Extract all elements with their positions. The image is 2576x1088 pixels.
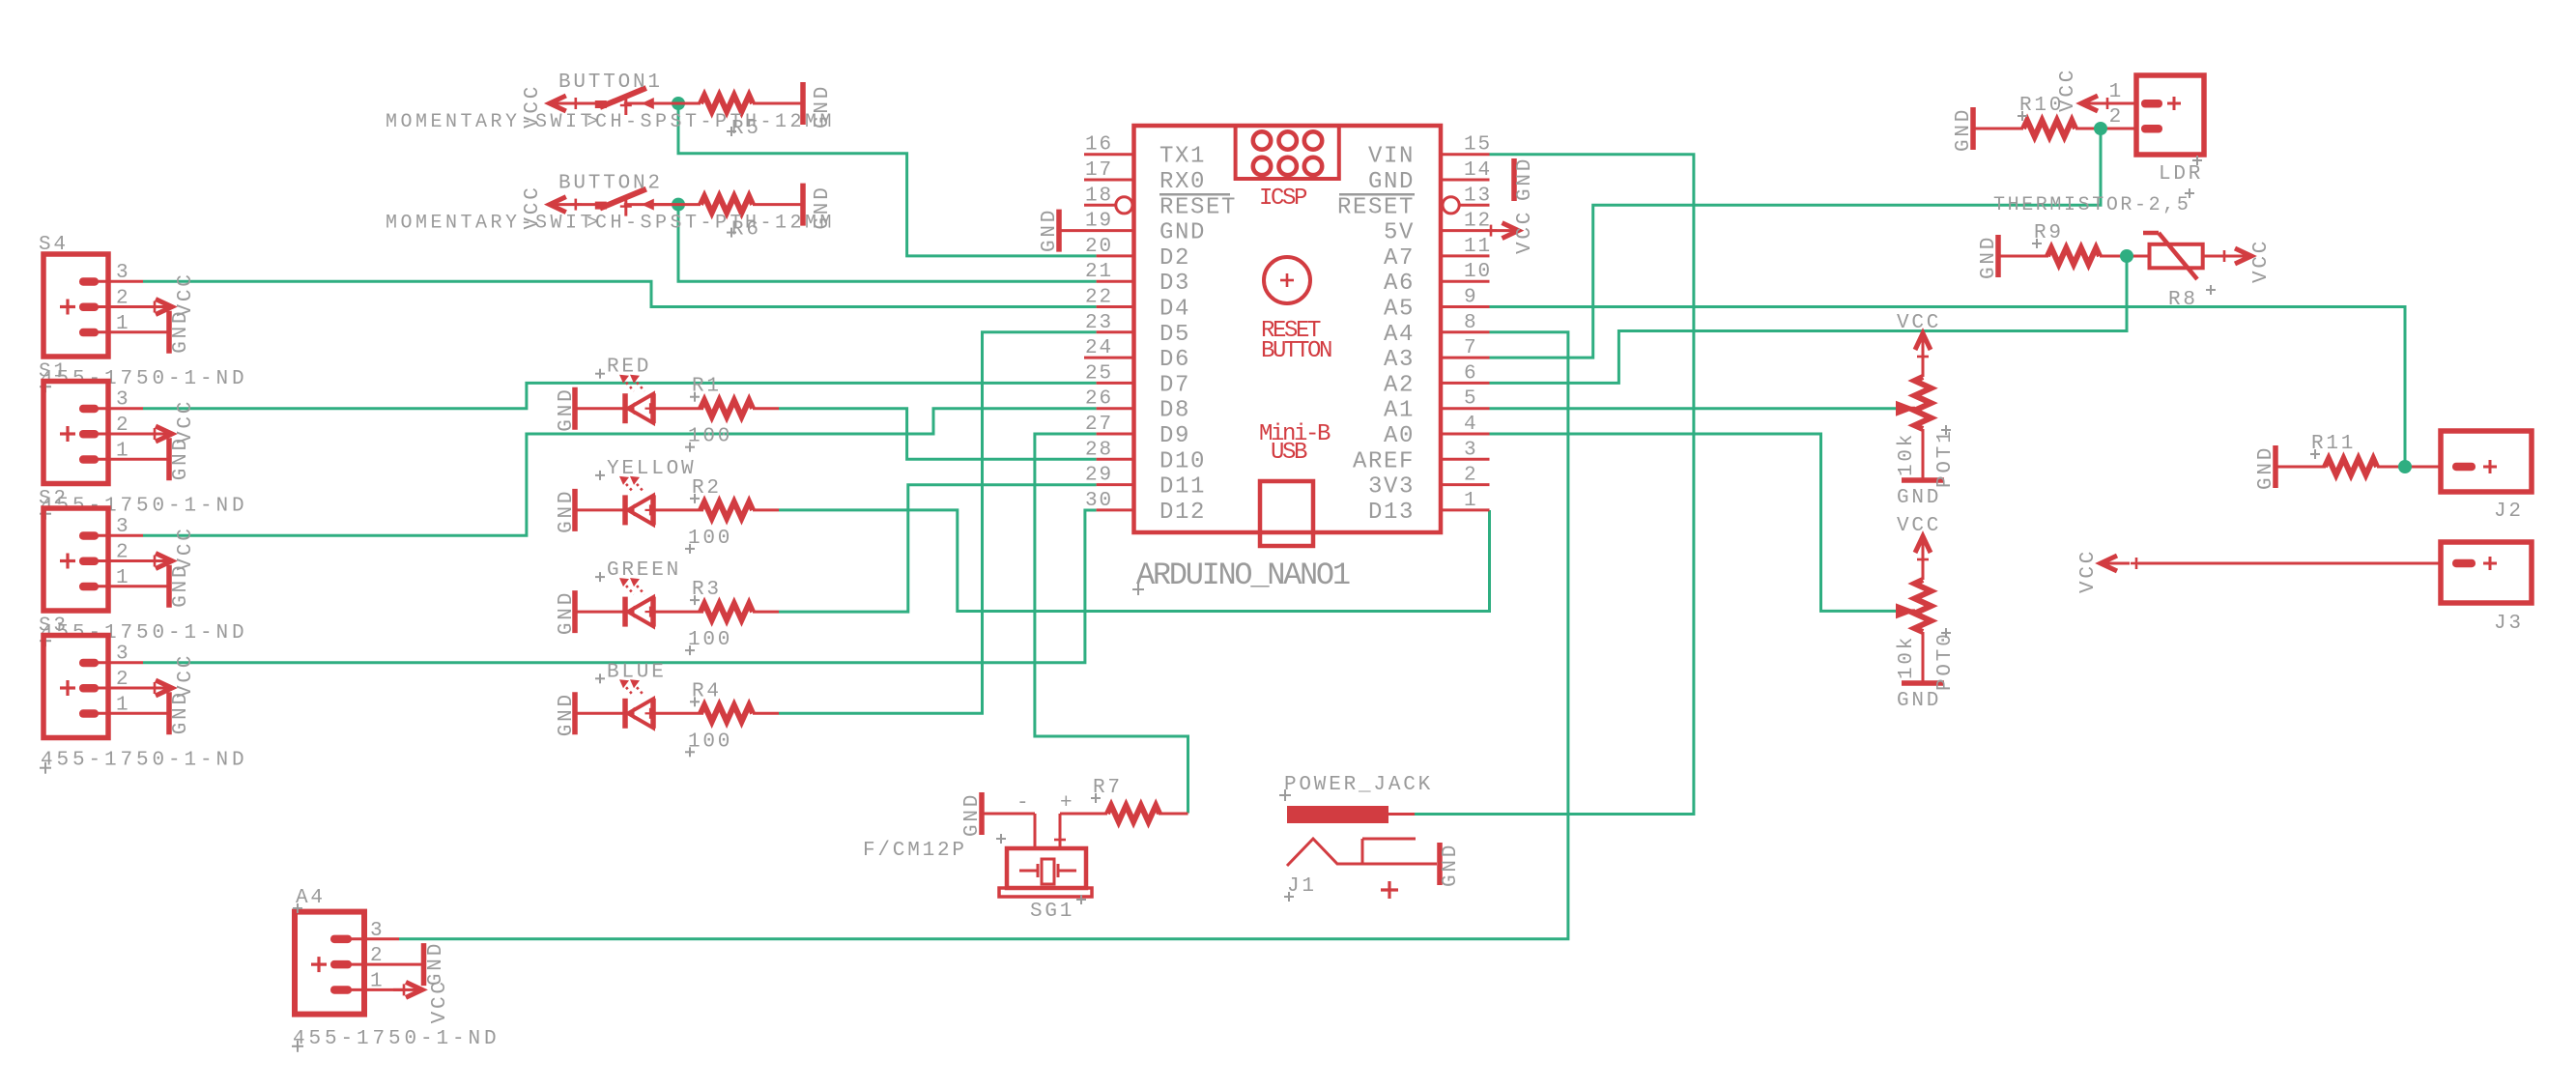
svg-text:F/CM12P: F/CM12P	[863, 840, 967, 862]
pin 28 lead	[1097, 458, 1134, 461]
svg-text:GND: GND	[170, 690, 192, 734]
pin label D4	[1159, 297, 1190, 323]
label ICSP	[1259, 186, 1307, 212]
VCC arrow connector 1 pin2	[143, 300, 172, 315]
pin number 16	[1085, 134, 1113, 157]
svg-text:100: 100	[688, 629, 732, 651]
VCC label thermistor	[2250, 239, 2273, 283]
VCC arrow connector 3 pin2	[143, 554, 172, 569]
pin number 23	[1085, 312, 1113, 334]
svg-text:VCC: VCC	[2057, 68, 2079, 112]
svg-text:BUTTON1: BUTTON1	[558, 72, 663, 94]
wire D9 to R7	[1035, 434, 1188, 814]
svg-text:A7: A7	[1384, 245, 1415, 272]
value label 100 R3	[685, 629, 732, 655]
label 10k POT0	[1896, 635, 1918, 679]
svg-text:18: 18	[1085, 185, 1113, 207]
svg-text:455-1750-1-ND: 455-1750-1-ND	[293, 1028, 501, 1050]
pin number 10	[1464, 261, 1492, 283]
name label S1 connector2	[39, 361, 69, 384]
svg-text:MOMENTARY-SWITCH-SPST-PTH-12MM: MOMENTARY-SWITCH-SPST-PTH-12MM	[386, 111, 835, 133]
label BUTTON1	[558, 72, 663, 94]
connector J3 455-1750 (3-pin header)	[43, 508, 169, 611]
wire BUTTON1 to D2	[678, 103, 1097, 256]
label YELLOW	[595, 458, 696, 480]
ground bar R10	[1953, 107, 1975, 152]
value label 455-1750-1-ND 1	[40, 368, 248, 392]
svg-text:100: 100	[688, 426, 732, 448]
svg-text:1: 1	[370, 970, 385, 992]
wire R9 row	[2000, 255, 2150, 258]
svg-text:R1: R1	[692, 376, 722, 398]
wire LED BLUE row	[577, 712, 779, 715]
pin 2 lead	[1441, 483, 1490, 486]
svg-text:3: 3	[1464, 439, 1478, 461]
svg-text:1: 1	[2109, 81, 2124, 103]
svg-text:1: 1	[116, 694, 130, 716]
svg-text:A4: A4	[1384, 322, 1415, 348]
svg-text:3: 3	[116, 262, 130, 284]
wire R1 to D10	[779, 409, 1097, 460]
reset button circle	[1264, 257, 1310, 303]
VCC arrow POT1	[1915, 333, 1931, 362]
svg-text:S2: S2	[39, 488, 69, 510]
svg-text:1: 1	[1464, 490, 1478, 512]
label THERMISTOR-2,5	[1993, 188, 2194, 216]
pin 4 lead	[1441, 433, 1490, 436]
VCC label LDR	[2057, 68, 2079, 112]
pin number 12	[1464, 211, 1492, 233]
label J1	[1284, 875, 1317, 902]
GND label connector 4	[170, 690, 192, 734]
svg-text:10: 10	[1464, 261, 1492, 283]
svg-text:VCC: VCC	[2250, 239, 2273, 283]
VCC arrow thermistor	[2218, 248, 2251, 264]
connector J4 455-1750 (3-pin header)	[43, 636, 169, 738]
GND label connector 3	[170, 563, 192, 608]
VCC label connector 4	[175, 653, 197, 698]
label Mini-B USB	[1259, 421, 1331, 466]
VCC arrow connector 2 pin2	[143, 426, 172, 442]
svg-text:VCC: VCC	[1897, 312, 1941, 334]
svg-text:2: 2	[116, 415, 130, 437]
svg-text:5: 5	[1464, 388, 1478, 411]
LED RED	[619, 375, 656, 424]
label RESET BUTTON	[1261, 318, 1331, 364]
wire BUTTON2 to D3	[678, 205, 1097, 282]
LED GREEN	[619, 578, 656, 627]
ICSP header	[1236, 126, 1339, 179]
svg-text:D4: D4	[1159, 297, 1190, 323]
junction dot BUTTON2	[672, 198, 685, 212]
pin label A7	[1384, 245, 1415, 272]
svg-text:SG1: SG1	[1030, 901, 1074, 923]
label R3	[690, 579, 722, 605]
pin number 8	[1464, 312, 1478, 334]
svg-text:R9: R9	[2034, 222, 2064, 244]
pin 26 lead	[1097, 407, 1134, 410]
svg-text:YELLOW: YELLOW	[607, 458, 696, 480]
pin 20 lead	[1097, 254, 1134, 257]
wire connector4 pin3 to D12	[143, 510, 1097, 663]
pin numbers connector 1	[116, 262, 130, 335]
label 10k POT1	[1896, 432, 1918, 476]
VCC arrow pin12 5V	[1485, 210, 1536, 254]
pin number 15	[1464, 134, 1492, 157]
pin number 29	[1085, 465, 1113, 487]
svg-text:GND: GND	[1897, 690, 1941, 712]
ground bar connector 3 pin1	[166, 565, 172, 608]
VCC label POT0	[1897, 515, 1941, 537]
pin number 22	[1085, 287, 1113, 309]
svg-text:20: 20	[1085, 236, 1113, 258]
wire A3 to LDR junction	[1490, 129, 2102, 358]
pin 7 lead	[1441, 357, 1490, 359]
pin 8 lead	[1441, 330, 1490, 333]
junction dot thermistor	[2120, 249, 2133, 263]
svg-text:12: 12	[1464, 211, 1492, 233]
svg-text:16: 16	[1085, 134, 1113, 157]
LED YELLOW	[619, 476, 656, 526]
label R10	[2018, 95, 2064, 121]
wire LED YELLOW row	[577, 508, 779, 511]
pin 24 lead	[1084, 357, 1134, 359]
svg-text:14: 14	[1464, 159, 1492, 182]
label R2	[690, 477, 722, 503]
pin label RESET	[1159, 194, 1237, 220]
svg-text:3: 3	[116, 644, 130, 666]
svg-text:9: 9	[1464, 287, 1478, 309]
svg-text:4: 4	[1464, 414, 1478, 436]
thermistor R8 symbol	[2143, 233, 2203, 279]
plus mark J1	[1381, 881, 1398, 899]
label LDR	[2159, 156, 2203, 186]
svg-text:2: 2	[370, 945, 385, 967]
svg-text:GND: GND	[1514, 157, 1536, 201]
name label A4	[293, 887, 326, 913]
speaker SG1 body	[999, 848, 1092, 897]
ground bar LED YELLOW	[556, 489, 578, 533]
svg-text:1: 1	[116, 313, 130, 335]
svg-text:R8: R8	[2168, 289, 2198, 311]
svg-text:GND: GND	[170, 309, 192, 354]
svg-text:>: >	[587, 213, 602, 235]
svg-text:J2: J2	[2494, 501, 2524, 523]
label J3	[2494, 613, 2524, 635]
svg-text:22: 22	[1085, 287, 1113, 309]
junction dot LDR	[2094, 122, 2107, 135]
overline RESET right	[1339, 193, 1415, 196]
svg-text:D5: D5	[1159, 322, 1190, 348]
label J2	[2494, 501, 2524, 523]
value label 100 R4	[685, 730, 732, 757]
svg-text:30: 30	[1085, 490, 1113, 512]
VCC label connector 3	[175, 526, 197, 570]
wire A4 connector to pin A4	[399, 332, 1568, 939]
wire connector2 pin3 to D7	[143, 383, 1097, 408]
svg-text:VCC: VCC	[1897, 515, 1941, 537]
connector J3 box	[2441, 542, 2532, 603]
pin 21 lead	[1097, 280, 1134, 283]
pin numbers connector A4	[370, 920, 385, 993]
GND label connector 2	[170, 436, 192, 480]
svg-text:GND: GND	[170, 563, 192, 608]
pin 16 lead	[1084, 153, 1134, 156]
svg-text:R11: R11	[2311, 433, 2356, 455]
label R1	[690, 376, 722, 402]
svg-text:TX1: TX1	[1159, 144, 1206, 170]
pin number 18	[1085, 185, 1113, 207]
wire A0 to POT0 wiper	[1490, 434, 1897, 611]
label RED	[595, 357, 651, 379]
pin 29 lead	[1097, 483, 1134, 486]
svg-text:R4: R4	[692, 680, 722, 702]
svg-text:19: 19	[1085, 211, 1113, 233]
label MOMENTARY-SWITCH-SPST-PTH-12MM 2	[386, 213, 835, 235]
svg-text:D2: D2	[1159, 245, 1190, 272]
pin 3 lead	[1441, 458, 1490, 461]
pin label TX1	[1159, 144, 1206, 170]
resistor R4	[701, 705, 753, 722]
svg-text:GND: GND	[2255, 445, 2277, 490]
label R6	[727, 219, 761, 242]
pin 6 lead	[1441, 382, 1490, 385]
wiper arrow POT1	[1896, 401, 1916, 416]
ground bar LED RED	[556, 387, 578, 431]
svg-text:2: 2	[2109, 106, 2124, 129]
svg-text:VCC: VCC	[1514, 210, 1536, 254]
power jack J1 barrel	[1287, 806, 1415, 823]
VCC arrow connector A4 pin1	[393, 982, 422, 997]
svg-text:3: 3	[370, 920, 385, 942]
pin 18 RESET lead + inversion circle	[1084, 197, 1132, 214]
svg-text:ICSP: ICSP	[1259, 186, 1307, 212]
svg-text:2: 2	[1464, 465, 1478, 487]
pin label A0	[1384, 423, 1415, 449]
svg-text:J3: J3	[2494, 613, 2524, 635]
VCC label connector 1	[175, 272, 197, 316]
connector J2 box	[2441, 431, 2532, 492]
svg-text:3V3: 3V3	[1368, 474, 1415, 501]
pin number 25	[1085, 362, 1113, 385]
wire VIN to power jack	[1415, 155, 1694, 815]
svg-text:GND: GND	[1978, 235, 2000, 279]
resistor R10	[2023, 121, 2075, 137]
pin label RESET	[1337, 194, 1415, 220]
ground bar connector 1 pin1	[166, 311, 172, 354]
pin number 30	[1085, 490, 1113, 512]
wire BUTTON2 row	[653, 203, 701, 206]
pin 30 lead	[1097, 508, 1134, 511]
pin label D10	[1159, 448, 1206, 474]
svg-text:10k: 10k	[1896, 635, 1918, 679]
svg-text:VCC: VCC	[2077, 549, 2100, 593]
pin label 5V	[1384, 220, 1415, 246]
svg-text:-: -	[1016, 792, 1031, 815]
pin number 13	[1464, 185, 1492, 207]
pin number 5	[1464, 388, 1478, 411]
pin 25 lead	[1097, 382, 1134, 385]
VCC symbol label BUTTON1	[522, 84, 544, 129]
svg-text:GND: GND	[170, 436, 192, 480]
wiper arrow POT0	[1896, 603, 1916, 618]
svg-text:GREEN: GREEN	[607, 559, 681, 582]
svg-text:GND: GND	[1953, 107, 1975, 152]
svg-text:D3: D3	[1159, 271, 1190, 297]
pin number 20	[1085, 236, 1113, 258]
svg-text:17: 17	[1085, 159, 1113, 182]
pin 1 lead	[1441, 508, 1490, 511]
svg-text:BUTTON2: BUTTON2	[558, 173, 663, 195]
pin label A3	[1384, 347, 1415, 373]
svg-text:R3: R3	[692, 579, 722, 601]
svg-text:2: 2	[116, 288, 130, 310]
svg-text:100: 100	[688, 528, 732, 550]
value label 455-1750-1-ND 4	[40, 750, 248, 774]
pin 22 lead	[1097, 305, 1134, 308]
pin label D6	[1159, 347, 1190, 373]
pin number 3	[1464, 439, 1478, 461]
label BUTTON2	[558, 173, 663, 195]
label GREEN	[595, 559, 681, 582]
svg-text:6: 6	[1464, 362, 1478, 385]
label BLUE	[595, 661, 667, 683]
VCC arrow LDR pin1	[2081, 96, 2136, 111]
svg-text:D12: D12	[1159, 500, 1206, 526]
pin label D2	[1159, 245, 1190, 272]
pin number 9	[1464, 287, 1478, 309]
svg-text:BLUE: BLUE	[607, 661, 667, 683]
svg-text:POWER_JACK: POWER_JACK	[1284, 774, 1433, 796]
resistor R2	[701, 501, 753, 518]
VCC label J3	[2077, 549, 2100, 593]
Arduino Nano U1 body	[1134, 126, 1442, 532]
VCC label POT1	[1897, 312, 1941, 334]
wire A2 to thermistor junction	[1490, 256, 2128, 383]
pin label D9	[1159, 423, 1190, 449]
wire SG1 minus	[984, 814, 1035, 848]
connector LDR box	[2136, 75, 2204, 155]
name label S3 connector4	[39, 616, 69, 638]
svg-text:D10: D10	[1159, 448, 1206, 474]
ground bar LED BLUE	[556, 692, 578, 736]
LED BLUE	[619, 679, 656, 729]
svg-text:D6: D6	[1159, 347, 1190, 373]
label R5	[727, 118, 761, 140]
resistor R7	[1107, 806, 1188, 822]
svg-text:A1: A1	[1384, 398, 1415, 424]
svg-text:23: 23	[1085, 312, 1113, 334]
label F/CM12P	[863, 834, 1006, 862]
svg-text:ARDUINO_NANO1: ARDUINO_NANO1	[1136, 558, 1350, 593]
ground bar connector 2 pin1	[166, 438, 172, 480]
pin label 3V3	[1368, 474, 1415, 501]
svg-text:13: 13	[1464, 185, 1492, 207]
wire R4 to D5	[779, 332, 1097, 714]
pin label RX0	[1159, 169, 1206, 195]
svg-text:S4: S4	[39, 234, 69, 256]
pin 12 lead	[1441, 229, 1490, 232]
svg-text:POT1: POT1	[1934, 428, 1957, 488]
svg-text:USB: USB	[1271, 440, 1307, 466]
pin number 2	[1464, 465, 1478, 487]
pin numbers connector 3	[116, 516, 130, 589]
svg-text:GND: GND	[1368, 169, 1415, 195]
ground bar connector 4 pin1	[166, 692, 172, 734]
pin label GND	[1368, 169, 1415, 195]
pin number 24	[1085, 337, 1113, 359]
pin 10 lead	[1441, 280, 1490, 283]
VCC arrow J3	[2101, 556, 2441, 571]
resistor R1	[701, 400, 753, 416]
svg-text:100: 100	[688, 730, 732, 753]
svg-text:29: 29	[1085, 465, 1113, 487]
resistor R11	[2325, 459, 2377, 475]
connector A4 (3-pin header)	[295, 912, 424, 1015]
svg-text:J1: J1	[1287, 875, 1317, 898]
pin label A5	[1384, 297, 1415, 323]
svg-text:R2: R2	[692, 477, 722, 500]
svg-text:THERMISTOR-2,5: THERMISTOR-2,5	[1993, 194, 2190, 216]
wire R11 row	[2277, 466, 2441, 469]
svg-text:GND: GND	[1440, 843, 1462, 887]
label MOMENTARY-SWITCH-SPST-PTH-12MM 1	[386, 111, 835, 133]
wire R3 to D11	[779, 485, 1097, 612]
power jack J1 center contact	[1362, 839, 1416, 864]
pin 9 lead	[1441, 305, 1490, 308]
pin label AREF	[1353, 448, 1415, 474]
svg-text:D8: D8	[1159, 398, 1190, 424]
potentiometer POT1	[1915, 350, 1932, 480]
ground bar R9	[1978, 235, 2000, 279]
svg-text:1: 1	[116, 440, 130, 462]
piezo element SG1	[1019, 859, 1076, 884]
svg-text:3: 3	[116, 516, 130, 538]
label minus plus SG1	[1016, 792, 1074, 815]
label R7	[1091, 777, 1123, 803]
svg-text:BUTTON: BUTTON	[1261, 338, 1331, 364]
svg-text:28: 28	[1085, 439, 1113, 461]
svg-text:GND: GND	[425, 941, 447, 986]
connector J1 455-1750 (3-pin header)	[43, 254, 169, 357]
svg-text:+: +	[1060, 792, 1074, 815]
pin number 26	[1085, 388, 1113, 411]
wire thermistor to VCC	[2203, 255, 2227, 258]
svg-text:POT0: POT0	[1934, 631, 1957, 691]
svg-text:15: 15	[1464, 134, 1492, 157]
GND label connector A4	[425, 941, 447, 986]
wire A1 to POT1 wiper	[1490, 407, 1897, 410]
svg-text:2: 2	[116, 542, 130, 564]
label POT0	[1934, 628, 1957, 691]
wire S4 pin3 to D4	[143, 281, 1097, 306]
pin number 7	[1464, 337, 1478, 359]
svg-text:R7: R7	[1093, 777, 1123, 799]
switch BUTTON2 (momentary SPST)	[550, 189, 679, 216]
svg-text:D7: D7	[1159, 372, 1190, 398]
svg-text:GND: GND	[556, 387, 578, 431]
value label 100 R1	[685, 426, 732, 452]
pin label D11	[1159, 474, 1206, 501]
wire SG1 plus	[1054, 814, 1107, 848]
svg-text:8: 8	[1464, 312, 1478, 334]
svg-text:RESET: RESET	[1159, 194, 1237, 220]
pin number 21	[1085, 261, 1113, 283]
pin label D13	[1368, 500, 1415, 526]
resistor R3	[701, 604, 753, 620]
pin label D5	[1159, 322, 1190, 348]
potentiometer POT0	[1915, 553, 1932, 683]
